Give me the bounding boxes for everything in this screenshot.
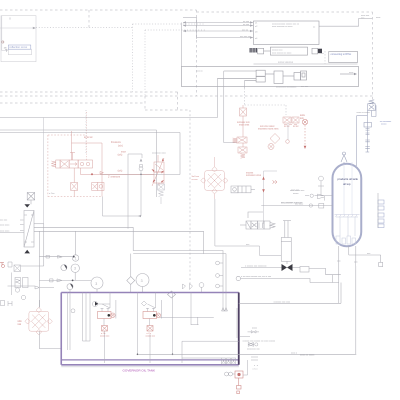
svg-text:xxxxx: xxxxx [293,193,299,195]
svg-text:xxxxx xxx: xxxxx xxx [146,336,156,338]
svg-text:reflection xxxxx: reflection xxxxx [10,45,28,49]
svg-text:x xxxxxx xxx xxxxxxxx: x xxxxxx xxx xxxxxxxx [245,265,267,267]
svg-text:xxxx xx xxxxx: xxxx xx xxxxx [357,112,371,114]
svg-text:3: 3 [74,267,76,271]
svg-text:xxxx xxxxxxx xx xxxx: xxxx xxxxxxx xx xxxx [272,26,293,28]
svg-text:xxxxxxxxxxxx xxxxxx xxx xx: xxxxxxxxxxxx xxxxxx xxx xx [272,24,300,26]
svg-text:GOVERNOR OIL TANK: GOVERNOR OIL TANK [123,368,157,372]
svg-text:x xx xxxx xxxxxx xxx, xxx x xx: x xx xxxx xxxxxx xxx, xxx x xxx [241,276,272,278]
svg-text:(x/x): (x/x) [118,144,123,147]
svg-text:x Cxx: x Cxx [49,193,55,195]
svg-text:xx xx xx: xx xx xx [84,136,93,139]
svg-text:xxx xxx: xxx xxx [301,86,309,88]
svg-text:xxxx xxxxx xxx: xxxx xxxxx xxx [290,190,305,192]
svg-text:xxxxxx xxx xxxxxx xx xxxx xxxx: xxxxxx xxx xxxxxx xx xxxx xxxxxx [243,340,276,342]
svg-text:xx xxx: xx xxx [243,21,250,23]
svg-text:xxxx xxxx: xxxx xxxx [0,231,10,233]
svg-text:xxx xx: xxx xx [242,29,249,31]
svg-text:(x/x): (x/x) [118,170,123,173]
svg-text:xx xx: xx xx [293,125,299,128]
svg-text:oil top: oil top [343,182,351,186]
svg-text:xxx xxx: xxx xxx [0,220,8,222]
svg-text:products oil tank: products oil tank [338,177,359,181]
svg-text:xx xx: xx xx [284,125,290,128]
svg-text:xxxxx xxx: xxxxx xxx [100,336,110,338]
svg-text:3: 3 [95,282,97,286]
svg-text:xx xxx: xx xxx [192,179,199,181]
svg-text:xxx xx: xxx xx [197,70,204,72]
svg-text:xxxxxxxx xxxx: xxxxxxxx xxxx [246,174,262,177]
svg-text:connecting to RHxx: connecting to RHxx [331,53,353,56]
svg-text:3: 3 [141,279,143,283]
svg-text:xxxx x: xxxx x [291,352,298,354]
svg-text:xxxxxxxxx xxxxxxxxx: xxxxxxxxx xxxxxxxxx [276,86,297,88]
svg-text:xxxxxx xxx: xxxxxx xxx [272,50,283,52]
svg-text:(x/x): (x/x) [118,154,123,157]
svg-text:xxxxx xxxxxxx: xxxxx xxxxxxx [278,61,294,64]
svg-text:xxx xxx xx: xxx xxx xx [240,36,251,38]
svg-text:xxxxxxx xxx xxxx: xxxxxxx xxx xxxx [274,302,291,304]
svg-text:xx xxx: xx xxx [243,24,250,26]
svg-text:xxxxx xx xxxxx: xxxxx xx xxxxx [300,354,315,356]
svg-text:xxxx xxxxxx xx xxxx: xxxx xxxxxx xx xxxx [272,52,292,54]
svg-text:xxxxxxxx xxxx: xxxxxxxx xxxx [152,153,167,155]
svg-text:xxxxx: xxxxx [381,124,387,126]
svg-text:SxCxxx: SxCxxx [192,176,200,178]
svg-text:xxxxxxxx xxxx xxxx: xxxxxxxx xxxx xxxx [258,128,279,131]
svg-text:1: 1 [75,256,77,260]
svg-text:(xxx): (xxx) [252,328,257,330]
svg-text:xxxx xxxx: xxxx xxxx [0,224,10,226]
svg-text:xxxx xxxx: xxxx xxxx [239,124,250,127]
svg-text:xxxxxxxx xxx: xxxxxxxx xxx [247,348,261,350]
svg-text:2' xxxxxxxx: 2' xxxxxxxx [108,176,121,179]
svg-text:xxx, xxxxxxx x xxx xxx: xxx, xxxxxxx x xxx xxx [281,202,304,204]
